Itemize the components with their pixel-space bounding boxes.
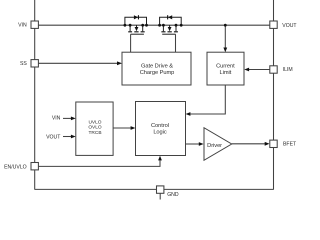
- svg-text:Current: Current: [216, 64, 235, 70]
- svg-text:VOUT: VOUT: [46, 135, 61, 141]
- wire main rail to current limit: [224, 25, 226, 49]
- svg-text:Logic: Logic: [153, 129, 167, 135]
- wire ILIM to current limit: [249, 69, 270, 71]
- svg-text:VOUT: VOUT: [282, 23, 297, 29]
- svg-text:ILIM: ILIM: [283, 67, 293, 73]
- wire Q2 gate lead: [175, 34, 177, 52]
- block UVLO OVLO TRCB: [76, 102, 113, 155]
- svg-text:OVLO: OVLO: [88, 125, 102, 131]
- node Q1 junction dots: [124, 24, 148, 27]
- wire current limit to control logic: [190, 85, 225, 114]
- pin SS: [31, 60, 38, 67]
- wire VIN comparator input: [63, 117, 72, 119]
- wire VIN to VOUT main rail: [38, 24, 269, 26]
- transistor Q1 body diode loop wire: [125, 17, 147, 25]
- diode D2: [167, 15, 172, 19]
- wire EN/UVLO to control logic: [38, 160, 160, 166]
- svg-text:TRCB: TRCB: [88, 130, 101, 136]
- wire driver to BFET: [232, 143, 266, 145]
- wire UVLO block to control logic: [113, 127, 131, 129]
- arrow VOUT into UVLO block: [71, 135, 76, 139]
- svg-text:Control: Control: [151, 123, 169, 129]
- pin EN/UVLO: [31, 163, 38, 170]
- pin squares: [31, 21, 277, 193]
- arrow current limit into control logic: [186, 112, 191, 116]
- arrow EN/UVLO into control logic: [158, 156, 162, 161]
- wire Q1 gate lead: [130, 34, 132, 52]
- node Q2 junction dots: [158, 24, 182, 27]
- svg-text:VIN: VIN: [18, 23, 27, 29]
- transistor Q1: [128, 25, 145, 34]
- transistor Q2 body arrow: [168, 27, 172, 31]
- wire VOUT comparator input: [63, 136, 72, 138]
- IC boundary bottom border wire: [35, 188, 274, 190]
- op-amp U1 Driver: [204, 128, 232, 161]
- arrow driver to BFET pin: [265, 142, 270, 146]
- svg-text:VIN: VIN: [52, 116, 61, 122]
- pin ILIM: [270, 66, 277, 73]
- svg-text:UVLO: UVLO: [88, 119, 101, 125]
- node main rail to current limit junction: [224, 24, 227, 27]
- wire GND stub: [159, 193, 161, 199]
- transistor Q2: [161, 25, 178, 34]
- transistor Q1 body arrow: [135, 27, 139, 31]
- svg-text:GND: GND: [167, 192, 179, 198]
- svg-text:Limit: Limit: [220, 70, 232, 76]
- arrow VIN into UVLO block: [71, 117, 76, 121]
- arrow UVLO into control logic: [131, 126, 136, 130]
- svg-text:Driver: Driver: [207, 143, 222, 149]
- arrow control logic into driver: [199, 142, 204, 146]
- svg-text:EN/UVLO: EN/UVLO: [4, 164, 27, 170]
- block Current Limit: [207, 52, 244, 85]
- wire control logic to driver: [186, 143, 200, 145]
- pin VIN: [31, 21, 38, 28]
- block Control Logic: [136, 102, 186, 156]
- svg-text:SS: SS: [20, 61, 27, 67]
- arrow down into current limit: [223, 48, 227, 53]
- arrow SS into gate drive: [117, 61, 122, 65]
- svg-text:Gate Drive &: Gate Drive &: [141, 64, 173, 70]
- IC boundary left border wire: [34, 0, 36, 190]
- svg-text:Charge Pump: Charge Pump: [140, 70, 175, 76]
- wire SS to gate drive block: [38, 62, 118, 64]
- transistor Q2 body diode loop wire: [160, 17, 182, 25]
- svg-text:BFET: BFET: [283, 141, 297, 147]
- pin BFET: [270, 140, 277, 147]
- pin VOUT: [270, 21, 277, 28]
- arrow ILIM into current limit: [244, 68, 249, 72]
- pin GND: [157, 186, 164, 193]
- IC boundary right border wire: [273, 0, 275, 190]
- block Gate Drive & Charge Pump: [122, 52, 191, 85]
- diode D1: [134, 15, 139, 19]
- arrowheads: [71, 48, 270, 161]
